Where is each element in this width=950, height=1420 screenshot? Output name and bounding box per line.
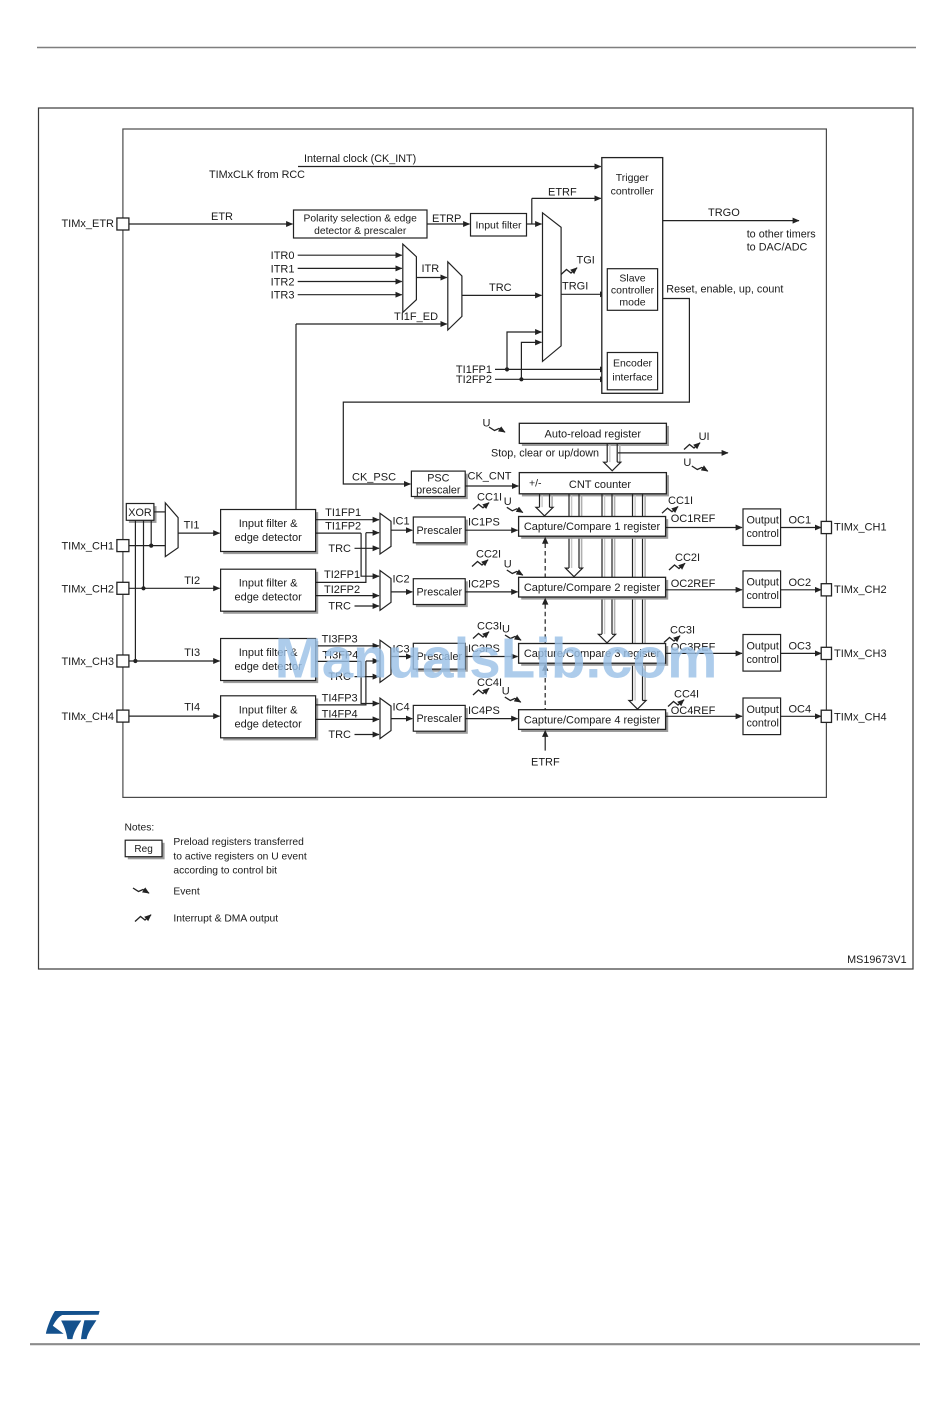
- wire ITR0: [298, 254, 402, 256]
- junction CH2 XOR tap: [141, 586, 145, 590]
- svg-text:TIMx_CH2: TIMx_CH2: [61, 583, 114, 595]
- block PSC prescaler: [414, 474, 468, 499]
- pin TIMx_CH1 right: [821, 521, 831, 533]
- svg-text:ETRP: ETRP: [432, 213, 461, 225]
- wire TI1 from mux to input filter 1: [178, 532, 220, 534]
- block input filter & edge detector 2: [223, 572, 318, 614]
- svg-text:MS19673V1: MS19673V1: [847, 954, 906, 966]
- wire OC3REF: [666, 652, 742, 654]
- register capture/compare 2 shadow+box: [521, 580, 668, 600]
- block Reg legend: [128, 843, 165, 860]
- svg-text:TI2: TI2: [184, 575, 200, 587]
- svg-text:Encoder: Encoder: [613, 358, 653, 370]
- wire OC2REF: [666, 589, 742, 591]
- page bottom rule: [30, 1343, 920, 1345]
- wire IC2PS: [465, 591, 517, 593]
- svg-text:control: control: [747, 528, 779, 540]
- wire IC3 mux input2 from TI4FP3: [366, 660, 379, 662]
- wire TRGI: [561, 293, 606, 295]
- wire internal clock CK_INT to trigger controller: [298, 166, 601, 168]
- interrupt arrow CC4I left: [473, 688, 489, 695]
- svg-text:Reset, enable, up, count: Reset, enable, up, count: [666, 284, 783, 296]
- svg-text:control: control: [747, 654, 779, 666]
- interrupt arrow CC3I left: [473, 632, 489, 639]
- mux trigger input selector: [543, 213, 562, 362]
- wire TI1F_ED: [296, 323, 447, 325]
- svg-text:TRC: TRC: [328, 601, 351, 613]
- svg-text:prescaler: prescaler: [416, 484, 461, 496]
- svg-text:Prescaler: Prescaler: [416, 713, 462, 725]
- wire TI2 from pin to input filter 2: [129, 587, 220, 589]
- svg-text:CK_PSC: CK_PSC: [352, 472, 396, 484]
- svg-text:TI1FP1: TI1FP1: [325, 507, 361, 519]
- wire TIMx_CH1 to TI1 mux: [129, 545, 165, 547]
- svg-text:ITR2: ITR2: [271, 277, 295, 289]
- svg-text:TI2FP2: TI2FP2: [324, 584, 360, 596]
- svg-text:Output: Output: [747, 704, 779, 716]
- interrupt legend symbol: [135, 915, 151, 922]
- wire ETRP: [427, 223, 470, 225]
- svg-text:Input filter &: Input filter &: [239, 704, 298, 716]
- svg-text:TRC: TRC: [328, 543, 351, 555]
- block polarity selection & edge detector & prescaler: [294, 210, 428, 238]
- wire OC2: [781, 589, 822, 591]
- wire OC1: [781, 527, 822, 529]
- svg-text:edge detector: edge detector: [234, 592, 302, 604]
- svg-text:OC1REF: OC1REF: [671, 513, 716, 525]
- block input filter & edge detector 3: [223, 641, 318, 683]
- junction CH1 XOR tap: [149, 544, 153, 548]
- wire TI2FP2 to encoder interface: [495, 378, 606, 380]
- wire ETRF riser: [531, 198, 533, 224]
- svg-text:control: control: [747, 590, 779, 602]
- svg-text:Reg: Reg: [134, 844, 152, 855]
- wire TRC stub row2: [355, 605, 380, 607]
- block prescaler 1: [416, 520, 468, 546]
- svg-text:CNT counter: CNT counter: [569, 479, 631, 491]
- block output control 4: [743, 698, 781, 735]
- junction CH3 XOR tap: [133, 659, 137, 663]
- svg-text:Input filter &: Input filter &: [239, 578, 298, 590]
- wire TI3FP3 filter3 to IC3 mux: [316, 645, 379, 647]
- svg-text:ManualsLib.com: ManualsLib.com: [275, 627, 718, 690]
- svg-text:Input filter &: Input filter &: [239, 518, 298, 530]
- mux IC2 selector: [380, 571, 391, 611]
- wire OC4REF: [666, 715, 742, 717]
- block trigger controller: [602, 158, 663, 394]
- svg-text:Input filter: Input filter: [475, 220, 522, 232]
- svg-text:OC2REF: OC2REF: [671, 578, 716, 590]
- svg-text:to active registers on U event: to active registers on U event: [173, 851, 306, 862]
- svg-text:edge detector: edge detector: [234, 718, 302, 730]
- wire IC3PS: [465, 656, 517, 658]
- svg-text:IC4: IC4: [393, 702, 410, 714]
- svg-text:interface: interface: [612, 372, 652, 384]
- wire IC1 mux input2 from TI2FP1: [366, 532, 379, 534]
- svg-text:ITR1: ITR1: [271, 263, 295, 275]
- svg-text:CC1I: CC1I: [477, 491, 502, 503]
- register auto-reload: [522, 426, 669, 446]
- mux IC4 selector: [380, 698, 391, 739]
- svg-text:TI1F_ED: TI1F_ED: [394, 311, 438, 323]
- svg-text:Capture/Compare 2 register: Capture/Compare 2 register: [524, 582, 661, 594]
- svg-text:ITR0: ITR0: [271, 250, 295, 262]
- wire TI4FP3 filter4 out cross up to IC3: [316, 661, 366, 705]
- svg-text:U: U: [683, 457, 691, 469]
- event arrow row 4: [505, 697, 521, 702]
- event arrow row 1: [507, 507, 523, 512]
- wire TRGO: [663, 220, 799, 222]
- interrupt arrow CC1I right: [662, 507, 678, 514]
- wire TI1F_ED vertical from input filter 1: [295, 324, 297, 510]
- wire OC4: [781, 715, 822, 717]
- svg-text:U: U: [504, 559, 512, 571]
- block XOR: [129, 506, 157, 523]
- wire TI1FP1 riser to trigger mux: [507, 332, 542, 369]
- svg-text:Notes:: Notes:: [125, 823, 155, 834]
- junction TI2FP2 riser: [519, 377, 523, 381]
- svg-text:CC4I: CC4I: [674, 689, 699, 701]
- wire ETRF input to CC4: [544, 737, 546, 751]
- hollow arrow counter to CC1: [551, 495, 553, 507]
- svg-text:OC4: OC4: [789, 703, 812, 715]
- svg-text:TIMx_CH4: TIMx_CH4: [834, 711, 887, 723]
- svg-text:Stop, clear or up/down: Stop, clear or up/down: [491, 447, 599, 459]
- svg-text:TRC: TRC: [328, 729, 351, 741]
- svg-text:Output: Output: [747, 640, 779, 652]
- svg-text:OC2: OC2: [789, 577, 812, 589]
- diagram inner border: [123, 129, 827, 797]
- dashed wire ETRF feedback segment 2: [544, 604, 546, 643]
- wire TI1FP2 filter1 out: [316, 532, 362, 534]
- register capture/compare 4 shadow+box: [521, 712, 668, 732]
- wire TI3 from pin to input filter 3: [129, 660, 220, 662]
- mux IC1 selector: [380, 513, 391, 554]
- svg-text:TRC: TRC: [489, 282, 512, 294]
- svg-text:edge detector: edge detector: [234, 532, 302, 544]
- interrupt arrow TGI: [561, 268, 577, 275]
- svg-text:UI: UI: [699, 431, 710, 443]
- pin TIMx_CH1: [117, 540, 129, 552]
- block output control 3: [743, 635, 781, 672]
- wire TI2FP1 filter2 out cross up to IC1: [316, 533, 366, 583]
- pin TIMx_CH4 right: [821, 710, 831, 722]
- svg-text:TI2FP2: TI2FP2: [456, 374, 492, 386]
- svg-text:ETR: ETR: [211, 211, 233, 223]
- register capture/compare 3 shadow+box: [521, 646, 668, 666]
- pin TIMx_CH3: [117, 655, 129, 667]
- pin TIMx_ETR: [117, 218, 129, 230]
- svg-text:TI1: TI1: [184, 520, 200, 532]
- wire update event out: [618, 452, 728, 454]
- hollow arrow counter to CC2: [581, 495, 583, 568]
- interrupt arrow CC3I right: [664, 636, 680, 643]
- svg-text:TI1FP2: TI1FP2: [325, 520, 361, 532]
- block output control 1: [743, 509, 781, 546]
- svg-text:IC1: IC1: [393, 516, 410, 528]
- register capture/compare 1 shadow+box: [521, 519, 668, 539]
- dashed wire ETRF feedback segment 1: [544, 544, 546, 578]
- hollow arrow counter to CC3: [614, 495, 616, 634]
- svg-text:Interrupt & DMA output: Interrupt & DMA output: [173, 914, 278, 925]
- block output control 2: [743, 571, 781, 608]
- svg-text:TIMx_CH2: TIMx_CH2: [834, 584, 887, 596]
- interrupt arrow UI: [684, 443, 700, 450]
- svg-text:OC3: OC3: [789, 641, 812, 653]
- block prescaler 3: [416, 646, 468, 672]
- wire IC1PS: [465, 529, 517, 531]
- svg-text:controller: controller: [611, 186, 655, 198]
- block prescaler 2: [416, 581, 468, 607]
- svg-text:Internal clock (CK_INT): Internal clock (CK_INT): [304, 153, 416, 165]
- wire TI1FP1 filter1 to IC1 mux: [316, 519, 379, 521]
- wire TI2FP2 filter2 to IC2 mux: [316, 595, 379, 597]
- svg-text:Preload registers transferred: Preload registers transferred: [173, 837, 304, 848]
- wire OC3: [781, 652, 822, 654]
- wire TI4FP4 filter4 to IC4 mux: [316, 718, 379, 720]
- block input filter & edge detector 4: [223, 698, 318, 740]
- svg-text:to DAC/ADC: to DAC/ADC: [747, 242, 808, 254]
- svg-text:TI3: TI3: [184, 647, 200, 659]
- event legend symbol: [133, 888, 149, 893]
- svg-text:Output: Output: [747, 577, 779, 589]
- pin TIMx_CH2: [117, 582, 129, 594]
- svg-text:Auto-reload register: Auto-reload register: [544, 429, 641, 441]
- svg-text:TIMx_CH3: TIMx_CH3: [834, 648, 887, 660]
- mux TI1 selector: [165, 503, 178, 557]
- svg-text:mode: mode: [619, 297, 645, 309]
- mux ITR selector: [403, 244, 417, 312]
- svg-text:TIMx_CH1: TIMx_CH1: [61, 541, 114, 553]
- svg-text:CK_CNT: CK_CNT: [468, 471, 512, 483]
- svg-text:Trigger: Trigger: [616, 172, 649, 184]
- svg-text:IC1PS: IC1PS: [468, 517, 500, 529]
- block input filter: [471, 214, 527, 237]
- wire TI3FP4 cross down to IC4: [361, 661, 379, 703]
- dashed wire ETRF feedback segment 3: [544, 671, 546, 710]
- svg-text:TIMx_ETR: TIMx_ETR: [61, 218, 114, 230]
- pin TIMx_CH4: [117, 710, 129, 722]
- svg-text:IC2: IC2: [393, 574, 410, 586]
- svg-text:TRGI: TRGI: [562, 281, 588, 293]
- svg-text:TGI: TGI: [577, 255, 595, 267]
- event arrow U update: [692, 466, 708, 471]
- block prescaler 4: [416, 708, 468, 734]
- svg-text:TI2FP1: TI2FP1: [324, 569, 360, 581]
- svg-text:ETRF: ETRF: [531, 757, 560, 769]
- wire ETRF to trigger controller: [532, 197, 601, 199]
- event arrow row 3: [505, 635, 521, 640]
- block input filter & edge detector 1: [223, 512, 318, 554]
- svg-text:XOR: XOR: [128, 507, 152, 519]
- svg-text:TIMxCLK from RCC: TIMxCLK from RCC: [209, 169, 305, 181]
- wire XOR tap from TIMx_CH3: [134, 520, 136, 661]
- wire XOR tap from TIMx_CH2: [143, 520, 145, 588]
- svg-text:Event: Event: [173, 887, 199, 898]
- event arrow row 2: [507, 570, 523, 575]
- svg-text:ITR3: ITR3: [271, 290, 295, 302]
- wire IC3 to prescaler 3: [391, 656, 412, 658]
- register CNT counter: [522, 475, 669, 496]
- svg-text:Capture/Compare 4 register: Capture/Compare 4 register: [524, 714, 661, 726]
- interrupt arrow CC4I right: [668, 700, 684, 707]
- svg-text:OC1: OC1: [789, 515, 812, 527]
- svg-text:+/-: +/-: [529, 478, 542, 490]
- svg-text:PSC: PSC: [427, 473, 449, 485]
- pin TIMx_CH2 right: [821, 584, 831, 596]
- wire TRC to trigger mux: [462, 294, 542, 296]
- svg-text:ETRF: ETRF: [548, 187, 577, 199]
- svg-text:TIMx_CH1: TIMx_CH1: [834, 522, 887, 534]
- wire TI1FP1 to encoder interface: [495, 368, 606, 370]
- wire TI4 from pin to input filter 4: [129, 715, 220, 717]
- svg-text:according to control bit: according to control bit: [173, 866, 277, 877]
- wire CK_PSC from slave mode controller: [343, 299, 689, 485]
- wire OC1REF: [666, 527, 742, 529]
- wire IC4 to prescaler 4: [391, 718, 412, 720]
- wire TI1FP2 cross down to IC2: [361, 533, 379, 576]
- svg-text:controller: controller: [611, 285, 655, 297]
- wire ITR: [416, 277, 446, 279]
- svg-text:Prescaler: Prescaler: [416, 525, 462, 537]
- mux IC3 selector: [380, 640, 391, 682]
- svg-text:TI4FP3: TI4FP3: [322, 693, 358, 705]
- mux TRC selector: [448, 262, 462, 330]
- hollow arrow auto-reload to counter: [619, 445, 621, 462]
- svg-text:Prescaler: Prescaler: [416, 587, 462, 599]
- wire TRC stub row1: [355, 547, 380, 549]
- wire XOR tap from TIMx_CH1: [150, 520, 152, 545]
- wire IC1 to prescaler 1: [391, 529, 412, 531]
- wire XOR output to TI1 mux: [155, 511, 166, 513]
- figure outer frame: [39, 108, 914, 969]
- hollow arrow counter to CC4: [644, 495, 646, 700]
- wire IC2 to prescaler 2: [391, 591, 412, 593]
- svg-text:Polarity selection & edge: Polarity selection & edge: [304, 214, 418, 225]
- svg-text:Output: Output: [747, 515, 779, 527]
- wire TRC stub row4: [355, 734, 380, 736]
- svg-text:Capture/Compare 1 register: Capture/Compare 1 register: [524, 521, 661, 533]
- svg-text:TI4FP4: TI4FP4: [322, 708, 358, 720]
- wire ETR: [129, 223, 293, 225]
- wire TI3FP4 filter3 out: [316, 660, 362, 662]
- svg-text:TIMx_CH4: TIMx_CH4: [61, 711, 114, 723]
- wire ITR2: [298, 281, 402, 283]
- block encoder interface: [607, 353, 657, 390]
- wire TI2FP2 riser to trigger mux: [521, 342, 541, 379]
- svg-text:Slave: Slave: [619, 273, 645, 285]
- interrupt arrow CC2I left: [472, 560, 488, 567]
- svg-text:CC2I: CC2I: [675, 552, 700, 564]
- svg-text:detector & prescaler: detector & prescaler: [314, 226, 407, 237]
- ST logo: [46, 1311, 100, 1339]
- svg-text:TRGO: TRGO: [708, 207, 740, 219]
- block slave controller mode: [607, 269, 657, 311]
- wire TRC stub row3: [355, 676, 380, 678]
- wire ETRF from input filter to TRGI mux: [527, 223, 542, 225]
- wire IC4PS: [465, 718, 517, 720]
- svg-text:ITR: ITR: [422, 263, 440, 275]
- svg-text:IC4PS: IC4PS: [468, 705, 500, 717]
- svg-text:IC2PS: IC2PS: [468, 578, 500, 590]
- interrupt arrow CC1I left: [473, 503, 489, 510]
- wire ITR3: [298, 294, 402, 296]
- event arrow U auto-reload: [489, 427, 505, 432]
- svg-text:OC4REF: OC4REF: [671, 705, 716, 717]
- svg-text:CC2I: CC2I: [476, 549, 501, 561]
- interrupt arrow CC2I right: [669, 563, 685, 570]
- pin TIMx_CH3 right: [821, 647, 831, 659]
- svg-text:TIMx_CH3: TIMx_CH3: [61, 656, 114, 668]
- svg-text:TI4: TI4: [184, 702, 200, 714]
- page top rule: [37, 47, 916, 49]
- junction TI1FP1 riser: [505, 367, 509, 371]
- svg-text:CC1I: CC1I: [668, 495, 693, 507]
- svg-text:U: U: [504, 496, 512, 508]
- wire CK_CNT: [465, 485, 518, 487]
- svg-text:to other timers: to other timers: [747, 229, 817, 241]
- wire ITR1: [298, 267, 402, 269]
- svg-text:control: control: [747, 717, 779, 729]
